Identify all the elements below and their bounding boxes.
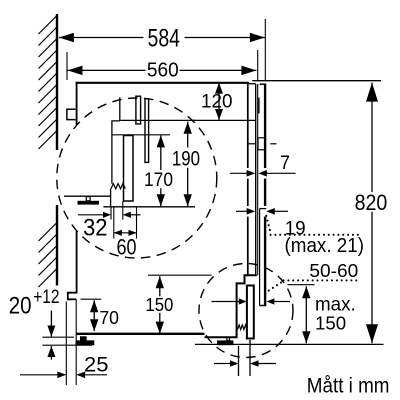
svg-text:150: 150 [315, 314, 346, 335]
dim 190 arrow up [184, 122, 192, 134]
dim 120 arrow up [215, 83, 223, 94]
furniture door thick line [264, 84, 266, 305]
left extension line A [65, 302, 67, 386]
dim 60 ext line right [136, 207, 138, 239]
dim 584 arrow left [59, 33, 74, 43]
dim 25 line right [84, 374, 107, 376]
dim 170 line lower [160, 188, 162, 206]
svg-text:(max. 21): (max. 21) [285, 235, 365, 257]
dim 20 arrow down line [50, 311, 52, 337]
bottom gap line left [214, 363, 230, 365]
machine left edge upper [76, 82, 78, 125]
dim 50-60 dotted diagonal [267, 283, 281, 292]
dim 70 ref line [81, 298, 102, 300]
bottom gap line right [258, 363, 276, 365]
dim 584 extension line [264, 19, 266, 80]
bracket dash leader [270, 143, 276, 145]
detail top line H1 inner [121, 119, 196, 121]
dim 25 arrow left [57, 372, 66, 379]
svg-text:584: 584 [148, 25, 181, 53]
machine rear inner line [257, 84, 259, 275]
dim 560 arrow left [68, 66, 83, 76]
dim 820 arrow up [366, 83, 378, 102]
svg-text:820: 820 [355, 190, 388, 215]
wall hatching [39, 16, 58, 35]
svg-text:190: 190 [172, 146, 200, 170]
channel bottom H1 line [121, 119, 256, 121]
dim 170 arrow up [157, 135, 165, 147]
dim 32 arrow right [123, 212, 131, 218]
dim 50-60 arrow left [239, 298, 247, 304]
detail bar A [136, 96, 141, 124]
dim max150 line [305, 286, 307, 343]
dim 50-60 dotted underline [284, 279, 361, 281]
arrow halo 7 row [229, 168, 297, 179]
dim 25 line left [20, 374, 59, 376]
svg-text:120: 120 [201, 92, 233, 113]
bottom gap ext left [238, 346, 240, 376]
dim 7 arrow left [247, 170, 256, 177]
svg-text:170: 170 [144, 170, 173, 191]
dim max150 arrow up [302, 286, 310, 298]
detail bracket plate [124, 136, 134, 202]
floor line left [42, 344, 92, 346]
dim 50-60 arrow right [266, 298, 274, 304]
detail circle large [57, 98, 217, 258]
detail foot stem [86, 197, 90, 201]
dim 20 arrow up [47, 346, 55, 357]
dim max150 arrow down [302, 331, 310, 343]
lower panel left edge [259, 209, 261, 306]
dim 70 arrow down [90, 319, 98, 331]
channel top cap [249, 83, 256, 85]
dim 120 arrow down [215, 109, 223, 120]
dim 70 arrow up [90, 300, 98, 312]
left extension line B [75, 299, 77, 385]
dim 584 line left [59, 37, 144, 39]
dim 560 line right [180, 69, 257, 71]
svg-text:70: 70 [99, 308, 119, 328]
dim 60 arrow right [129, 230, 137, 236]
dim 7 arrow right [258, 170, 267, 177]
dim 120 line [218, 83, 220, 120]
dim 19 dotted underline [271, 234, 359, 236]
dim 560 extension left [66, 52, 68, 80]
floor line right [195, 343, 384, 345]
dim 19 line right [274, 210, 288, 212]
dim 60 arrow left [114, 230, 122, 236]
dim 150 arrow up [156, 276, 164, 288]
bottom foot plate [217, 340, 233, 345]
dim 20 arrow down [47, 326, 55, 337]
dim 50-60 line left [212, 301, 240, 303]
left edge step [68, 293, 77, 300]
detail foot plate [78, 201, 100, 205]
dim 560 line left [68, 69, 146, 71]
wall line lower [56, 205, 58, 286]
left foot [76, 336, 95, 345]
svg-text:Mått i mm: Mått i mm [307, 372, 390, 397]
machine rear channel right [255, 84, 257, 276]
machine top edge [76, 82, 250, 84]
dim 150 line lower [159, 313, 161, 334]
svg-text:60: 60 [117, 235, 137, 260]
machine left edge lower [76, 231, 78, 294]
dim 19 dotted diagonal [266, 216, 270, 232]
furniture panel bottom [260, 305, 267, 307]
bottom spring zigzag [238, 325, 248, 330]
dim 560 arrow right [241, 66, 256, 76]
fixture bracket [258, 138, 265, 150]
dim 170 arrow down [157, 194, 165, 206]
dim 7 line right [267, 172, 296, 174]
machine rear channel left [247, 83, 249, 275]
dim 32 line right [131, 214, 141, 216]
svg-text:20: 20 [9, 293, 32, 320]
detail step [112, 121, 120, 184]
dim 190 arrow down [184, 194, 192, 206]
dim 60 line [114, 232, 137, 234]
dim 560 extension right [257, 50, 259, 80]
svg-text:560: 560 [147, 59, 179, 82]
dim 32 ext line left [110, 207, 112, 220]
bottom gap arrow left [230, 360, 239, 367]
dim 820 line lower [371, 212, 373, 343]
wall line upper [56, 14, 58, 150]
dim 150 line upper [159, 276, 161, 296]
detail rear wall upper [119, 97, 121, 121]
dim max150 ref line [288, 284, 315, 286]
dim 70 line [93, 300, 95, 331]
dim 7 line left [230, 172, 247, 174]
svg-text:25: 25 [84, 352, 109, 377]
furniture panel top cap [260, 83, 267, 85]
hinge bar [258, 98, 260, 114]
dim 820 arrow down [366, 324, 378, 343]
fixture tick [248, 143, 255, 145]
dim 25 arrow right [76, 372, 85, 379]
dim 32 line left [78, 214, 104, 216]
worktop line [252, 80, 381, 82]
dim 584 arrow right [250, 33, 265, 43]
svg-text:50-60: 50-60 [309, 260, 358, 281]
bottom step outline [205, 275, 257, 337]
dim 150 arrow down [156, 322, 164, 334]
bottom plinth rect [247, 286, 254, 339]
dim 820 line upper [371, 83, 373, 192]
svg-text:7: 7 [280, 153, 290, 174]
dim 190 line upper [187, 122, 189, 148]
dim 170 line upper [160, 135, 162, 170]
machine bottom edge [76, 333, 205, 335]
bottom foot stem [227, 337, 230, 340]
dim 50-60 line right [274, 301, 290, 303]
lower panel top edge [260, 208, 267, 210]
bottom ref line left [42, 336, 74, 338]
wall bracket [67, 109, 76, 119]
dim 20 arrow up line [50, 346, 52, 360]
detail bar B [145, 99, 149, 163]
detail base line [103, 206, 195, 208]
dim 19 arrow right [266, 208, 275, 215]
dim 584 line right [185, 37, 265, 39]
dim 190 line lower [187, 168, 189, 207]
dim 150 ref line [148, 274, 212, 276]
dim 32 arrow left [103, 212, 111, 218]
bottom gap arrow right [250, 360, 259, 367]
arrow halo 19 row [235, 206, 289, 217]
detail circle small [199, 264, 293, 358]
svg-text:150: 150 [145, 294, 173, 315]
detail machine bottom line [64, 195, 111, 197]
bottom gap ext right [249, 340, 251, 376]
detail spring zigzag [111, 184, 125, 189]
dim 32 ext line right [122, 201, 124, 220]
detail line H2 [112, 134, 170, 136]
dim 19 line left [236, 210, 248, 212]
dim 19 arrow left [247, 208, 256, 215]
dim 60 ext line left [113, 207, 115, 239]
detail lower wall [110, 189, 112, 207]
svg-text:32: 32 [83, 214, 107, 241]
svg-text:+12: +12 [33, 287, 59, 308]
